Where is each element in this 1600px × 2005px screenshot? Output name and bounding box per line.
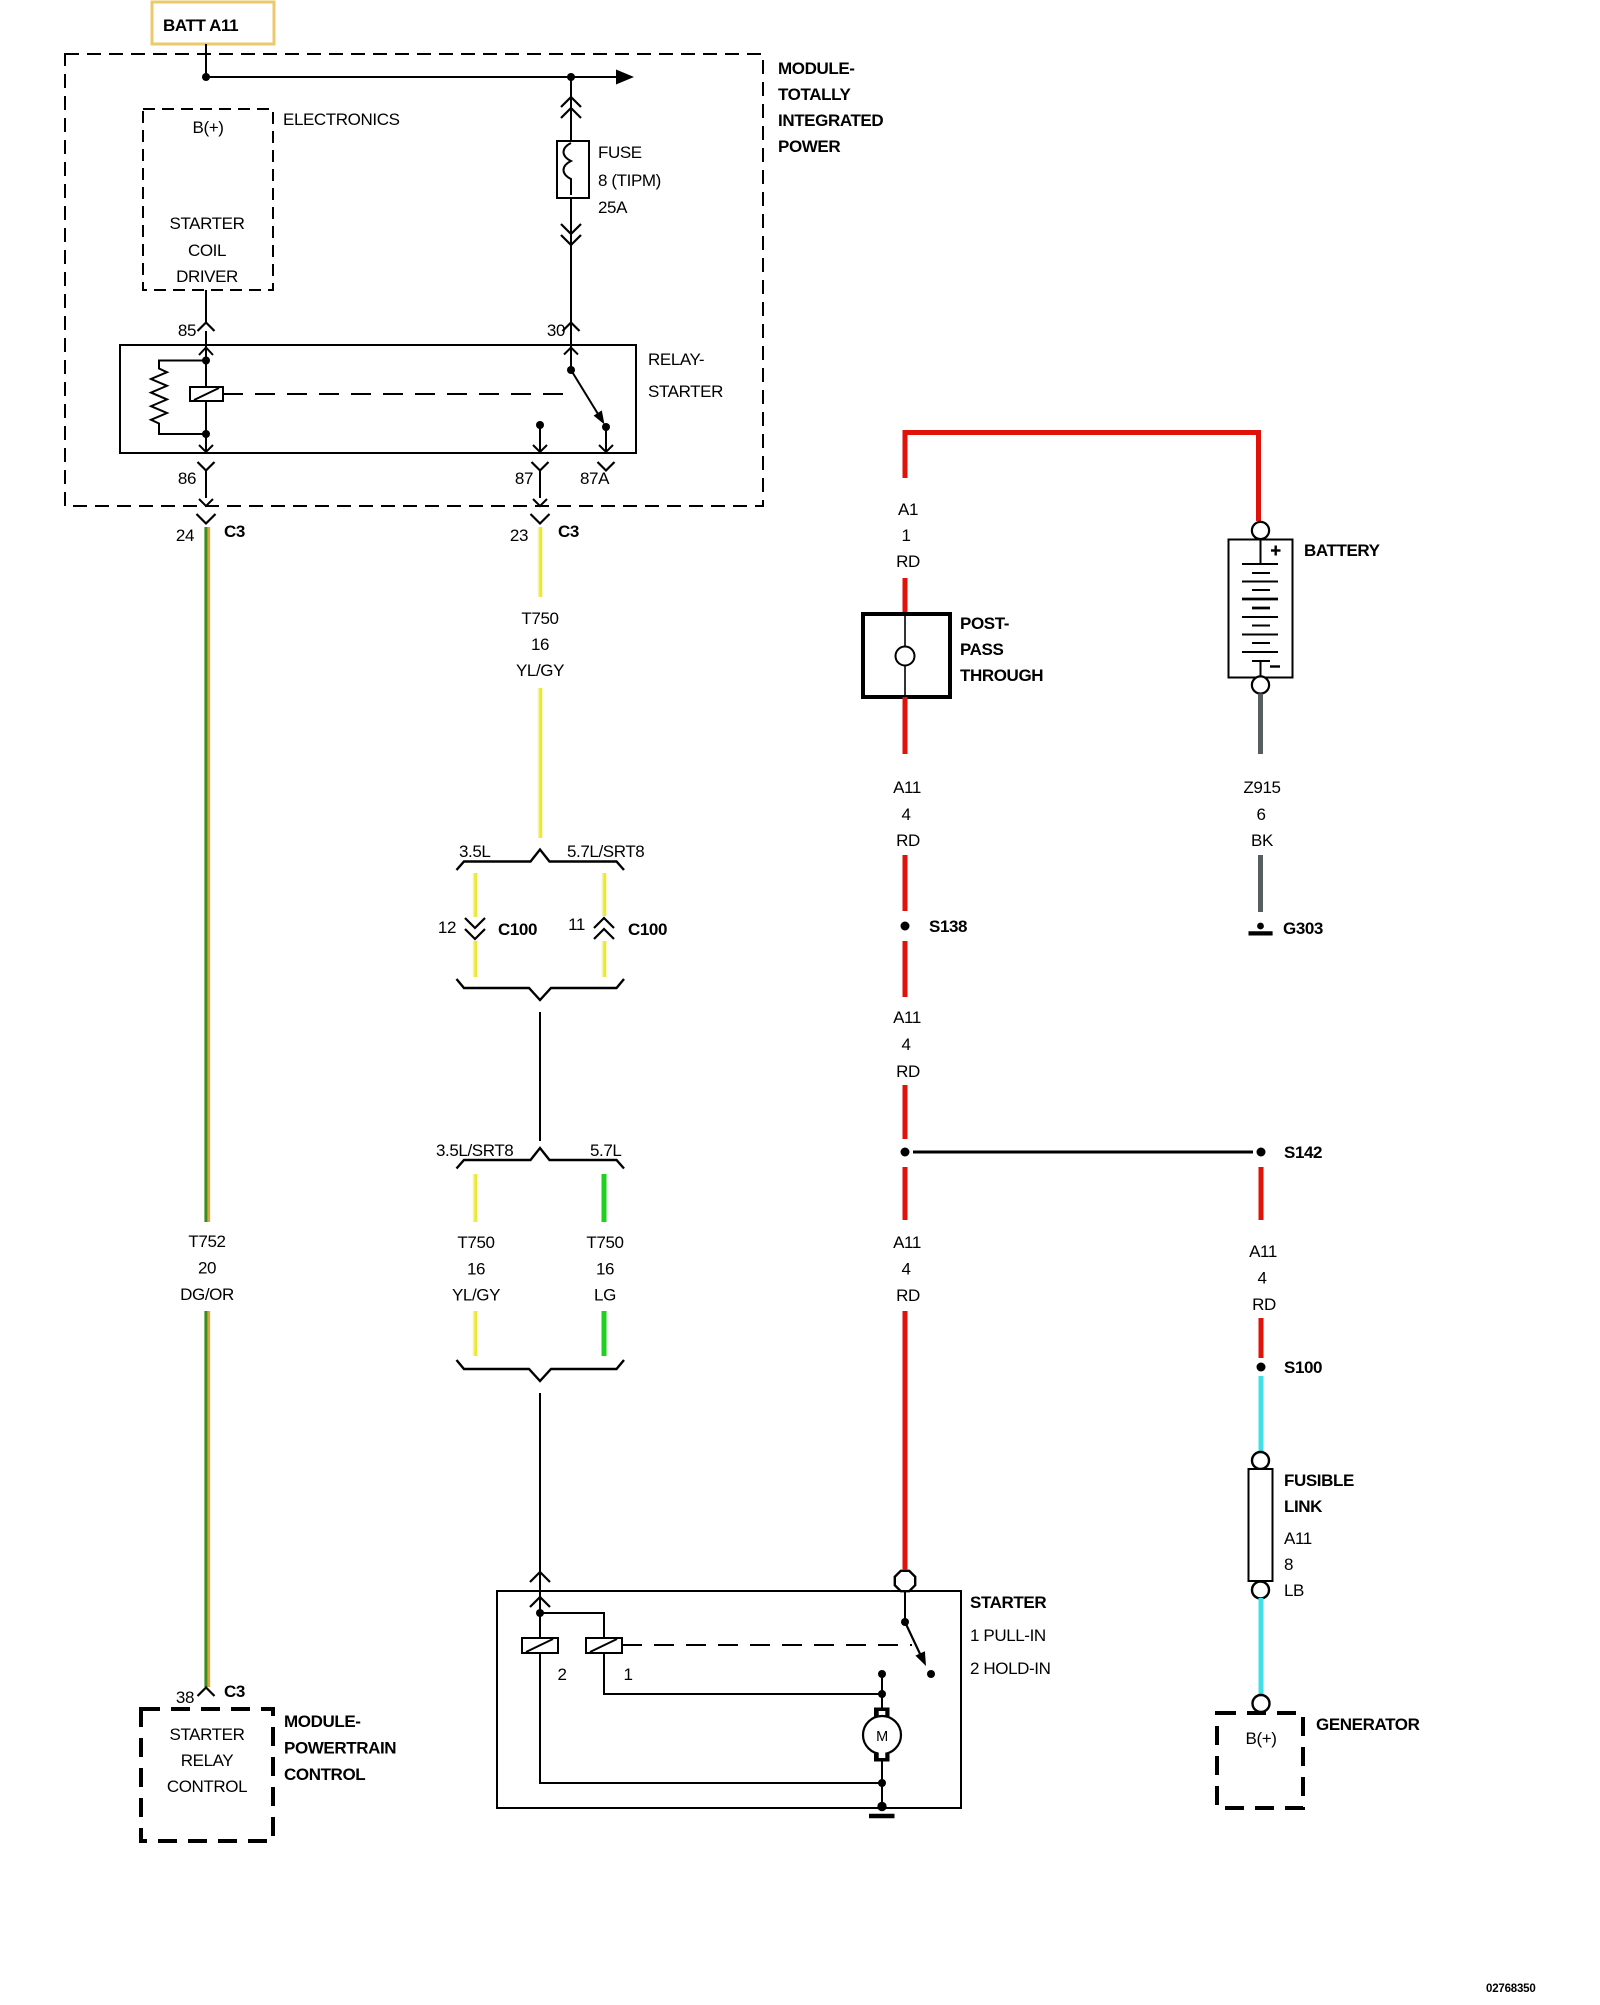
svg-text:5.7L/SRT8: 5.7L/SRT8 [567,842,644,861]
split brace 3.5L / 5.7L/SRT8 [457,850,625,871]
junction dot coil bottom [202,430,210,438]
svg-text:INTEGRATED: INTEGRATED [778,111,883,130]
wire label T752 20 DG/OR [180,1232,234,1304]
wire label A11 4 RD right [1249,1242,1277,1314]
splice S142 tie wire [913,1151,1253,1154]
svg-text:LB: LB [1284,1581,1304,1600]
label MODULE-TOTALLY INTEGRATED POWER [778,59,883,156]
wire BK to ground [1258,855,1263,912]
junction dot at bus tap [202,73,210,81]
wire A11 4 RD below post [903,697,908,754]
relay contact to pin 87A arrow down [599,427,613,452]
wire 3.5L branch upper [474,873,476,917]
pin 86 [178,462,215,506]
svg-text:Z915: Z915 [1243,778,1280,797]
connector chevron above starter [530,1572,550,1582]
svg-text:4: 4 [901,1260,910,1279]
svg-text:A11: A11 [893,1008,921,1027]
splice S138 [901,917,968,936]
wire motor to ground [881,1761,883,1806]
connector chevron at starter case [530,1597,550,1607]
svg-text:5.7L: 5.7L [590,1141,622,1160]
svg-text:3.5L: 3.5L [459,842,491,861]
connector pin 23 C3 [510,514,579,545]
svg-text:POWERTRAIN: POWERTRAIN [284,1739,396,1758]
connector double chevron below fuse [561,224,581,245]
svg-text:C3: C3 [558,522,579,541]
svg-text:86: 86 [178,469,196,488]
svg-text:TOTALLY: TOTALLY [778,85,852,104]
svg-text:A11: A11 [1249,1242,1277,1261]
wire LB to fusible link [1259,1376,1264,1452]
wire label T750 16 YL/GY left branch [452,1233,500,1305]
svg-text:G303: G303 [1283,919,1323,938]
svg-text:1 PULL-IN: 1 PULL-IN [970,1626,1046,1645]
svg-text:38: 38 [176,1688,194,1707]
svg-text:02768350: 02768350 [1486,1983,1536,1995]
power source callout box BATT A11 [152,2,274,44]
starter box [497,1591,961,1808]
battery positive terminal circle [1252,522,1269,539]
relay coil branch arrow up at pin 85 [199,348,213,356]
junction dot motor return [878,1779,886,1787]
motor brush bottom [874,1753,890,1762]
svg-text:THROUGH: THROUGH [960,666,1043,685]
svg-text:CONTROL: CONTROL [284,1765,365,1784]
svg-text:STARTER: STARTER [170,214,245,233]
relay switch arrow up at pin 30 [564,348,578,355]
wire to pull-in coil [540,1613,604,1638]
connector double chevron above fuse [561,97,581,118]
svg-text:11: 11 [568,915,585,934]
svg-text:24: 24 [176,526,194,545]
connector pin 24 C3 [176,514,245,545]
module box STARTER RELAY CONTROL (dashed) [141,1709,273,1841]
svg-text:MODULE-: MODULE- [778,59,855,78]
wire driver to relay pin 85 [205,290,207,322]
svg-text:25A: 25A [598,198,628,217]
label STARTER 1 PULL-IN 2 HOLD-IN [970,1593,1050,1678]
starter B+ terminal octagon [895,1571,915,1591]
svg-text:RELAY: RELAY [181,1751,234,1770]
svg-text:20: 20 [198,1259,216,1278]
wire YL/GY to engine split [539,688,541,838]
dashed actuation link to starter switch [622,1644,912,1646]
connector pin 38 C3 [176,1682,245,1707]
svg-text:RD: RD [1252,1295,1276,1314]
wire LG branch upper [602,1174,607,1222]
relay switch pivot dot [567,366,575,374]
wire bus to fuse [570,77,572,141]
svg-text:S142: S142 [1284,1143,1322,1162]
svg-text:PASS: PASS [960,640,1003,659]
svg-text:RD: RD [896,831,920,850]
wire to splice S100 [1259,1318,1264,1358]
wire A11 RD down to starter terminal [903,1311,908,1570]
generator box B(+) (dashed) [1217,1713,1303,1808]
svg-text:T750: T750 [457,1233,494,1252]
svg-text:YL/GY: YL/GY [516,661,564,680]
svg-text:16: 16 [531,635,549,654]
starter switch blade [905,1622,921,1656]
module box MODULE-TOTALLY INTEGRATED POWER (dashed) [65,54,763,506]
svg-text:GENERATOR: GENERATOR [1316,1715,1420,1734]
pin 87A [580,462,615,488]
svg-text:BATTERY: BATTERY [1304,541,1381,560]
pin 30 [547,321,580,370]
pin 87 [515,462,549,506]
wire YL/GY branch lower [474,1311,476,1356]
wire bus to other circuits [206,76,616,78]
svg-text:1: 1 [901,526,910,545]
wire LG branch lower [602,1311,607,1356]
svg-text:8: 8 [1284,1555,1293,1574]
relay coil suppression resistor [151,361,206,435]
svg-text:S100: S100 [1284,1358,1322,1377]
label MODULE-POWERTRAIN CONTROL [284,1712,396,1784]
svg-text:A11: A11 [1284,1529,1312,1548]
svg-text:4: 4 [901,805,910,824]
svg-text:STARTER: STARTER [170,1725,245,1744]
generator terminal circle [1253,1695,1270,1712]
svg-text:STARTER: STARTER [970,1593,1046,1612]
wire Z915 6 BK upper [1258,694,1263,755]
svg-text:A11: A11 [893,778,921,797]
wire label A11 4 RD below S138 [893,1008,921,1081]
wire label A11 4 RD to starter [893,1233,921,1305]
svg-text:85: 85 [178,321,196,340]
wire T752 20 DG/OR upper segment [206,527,209,1222]
wire A1 1 RD upper [903,430,908,478]
wire S142 to starter label gap [903,1167,908,1220]
relay contact to pin 87 arrow down [533,425,547,452]
svg-text:BK: BK [1251,831,1274,850]
svg-text:FUSIBLE: FUSIBLE [1284,1471,1354,1490]
svg-text:CONTROL: CONTROL [167,1777,247,1796]
relay coil to pin 86 arrow down [199,434,213,452]
svg-text:A1: A1 [898,500,918,519]
dashed actuation link coil to switch [223,393,565,395]
pin 85 [178,321,215,361]
wire merged to starter solenoid [539,1393,541,1613]
wire to splice S138 [903,855,908,911]
wire to splice S142 [903,1085,908,1139]
svg-text:4: 4 [1257,1269,1266,1288]
relay coil element [190,387,223,401]
label RELAY-STARTER [648,350,723,401]
svg-text:RD: RD [896,1286,920,1305]
connector pin 11 C100 double chevron [568,915,667,939]
wire contact stub to motor [881,1674,883,1709]
svg-text:16: 16 [596,1260,614,1279]
wire A1 to post-pass through [903,578,908,613]
wire label T750 16 YL/GY [516,609,564,680]
splice S142 dot right [1257,1148,1266,1157]
wire 5.7L/SRT8 branch upper [603,873,605,916]
electronics block STARTER COIL DRIVER (dashed) [143,109,273,290]
svg-text:POWER: POWER [778,137,840,156]
wire S142 to label gap right [1259,1167,1264,1220]
svg-text:87: 87 [515,469,533,488]
wire LB to generator [1259,1598,1264,1695]
svg-text:2 HOLD-IN: 2 HOLD-IN [970,1659,1050,1678]
hold-in coil 2 [522,1638,567,1684]
post-pass through box [863,614,950,697]
splice S100 [1257,1358,1323,1377]
relay coil wire [205,361,207,435]
svg-text:MODULE-: MODULE- [284,1712,361,1731]
wire T752 20 DG/OR lower segment [206,1311,209,1687]
splice S142 dot left [901,1148,910,1157]
split brace 3.5L/SRT8 / 5.7L [457,1148,625,1169]
merge brace to starter [457,1360,625,1381]
junction dot coil top [202,357,210,365]
wire from BATT A11 into module [205,44,207,77]
svg-text:RD: RD [896,1062,920,1081]
relay switch blade arrowhead [594,410,605,424]
relay switch blade [571,370,598,414]
wire S138 to label gap [903,941,908,997]
svg-text:RD: RD [896,552,920,571]
wire fuse to relay pin 30 [570,198,572,331]
wire hold-in coil to motor return [540,1653,882,1783]
wire pull-in coil to motor [604,1653,882,1694]
svg-text:12: 12 [438,918,456,937]
wire YL/GY branch upper [474,1174,476,1222]
wire to hold-in coil [539,1613,541,1638]
wire 3.5L branch lower [474,941,476,977]
svg-text:T750: T750 [521,609,558,628]
svg-text:30: 30 [547,321,565,340]
battery negative terminal circle [1252,676,1269,693]
pull-in coil 1 [586,1638,633,1684]
wire merged to second split [539,1012,541,1141]
svg-text:BATT A11: BATT A11 [163,16,238,35]
battery BATTERY [1229,540,1293,678]
wire 5.7L/SRT8 branch lower [603,941,605,977]
motor M [863,1716,901,1754]
relay switch contact dot 87A [602,423,610,431]
svg-text:C100: C100 [628,920,667,939]
svg-text:LINK: LINK [1284,1497,1323,1516]
svg-text:B(+): B(+) [193,118,224,137]
merge brace below C100 [457,979,625,1000]
svg-text:C100: C100 [498,920,537,939]
svg-text:2: 2 [557,1665,566,1684]
svg-text:A11: A11 [893,1233,921,1252]
junction dot motor feed [878,1690,886,1698]
svg-text:ELECTRONICS: ELECTRONICS [283,110,400,129]
svg-text:POST-: POST- [960,614,1009,633]
svg-text:DRIVER: DRIVER [176,267,238,286]
svg-text:FUSE: FUSE [598,143,642,162]
arrowhead wire continues [616,70,634,85]
label FUSIBLE LINK A11 8 LB [1284,1471,1354,1600]
ground dot [877,1802,886,1811]
svg-text:3.5L/SRT8: 3.5L/SRT8 [436,1141,513,1160]
starter switch pivot dot [901,1618,909,1626]
svg-text:LG: LG [594,1286,616,1305]
label POST-PASS THROUGH [960,614,1043,685]
svg-text:C3: C3 [224,1682,245,1701]
motor brush top [874,1708,890,1717]
svg-text:23: 23 [510,526,528,545]
wire label Z915 6 BK [1243,778,1280,850]
svg-text:M: M [876,1729,888,1745]
svg-text:C3: C3 [224,522,245,541]
svg-text:RELAY-: RELAY- [648,350,704,369]
svg-text:YL/GY: YL/GY [452,1286,500,1305]
svg-text:COIL: COIL [188,241,226,260]
wire battery feed bus (RD) [905,433,1259,522]
svg-text:S138: S138 [929,917,967,936]
svg-text:87A: 87A [580,469,610,488]
wire label A1 1 RD [896,500,920,571]
svg-text:1: 1 [623,1665,632,1684]
relay box RELAY-STARTER [120,345,636,453]
svg-text:8 (TIPM): 8 (TIPM) [598,171,661,190]
svg-text:16: 16 [467,1260,485,1279]
svg-text:T752: T752 [188,1232,225,1251]
svg-text:6: 6 [1256,805,1265,824]
svg-text:STARTER: STARTER [648,382,723,401]
junction dot at fuse branch [567,73,575,81]
svg-text:DG/OR: DG/OR [180,1285,234,1304]
svg-text:B(+): B(+) [1246,1729,1277,1748]
wire label T750 16 LG right branch [586,1233,623,1305]
fuse FUSE 8 (TIPM) 25A [557,141,661,217]
wire terminal to switch pivot [904,1592,906,1622]
connector pin 12 C100 double chevron [438,918,537,939]
ground G303 [1249,919,1324,938]
fusible link A11 8 LB [1249,1452,1273,1599]
wire label A11 4 RD [893,778,921,850]
wire T750 16 YL/GY segment from pin 23 [539,527,541,597]
junction dot solenoid feed [536,1609,544,1617]
ground bar [869,1814,895,1819]
starter switch blade arrowhead [915,1651,926,1666]
relay contact dot 87 [536,421,544,429]
starter contact stub dot [878,1670,886,1678]
starter switch contact dot [927,1670,935,1678]
svg-text:T750: T750 [586,1233,623,1252]
svg-text:4: 4 [901,1035,910,1054]
